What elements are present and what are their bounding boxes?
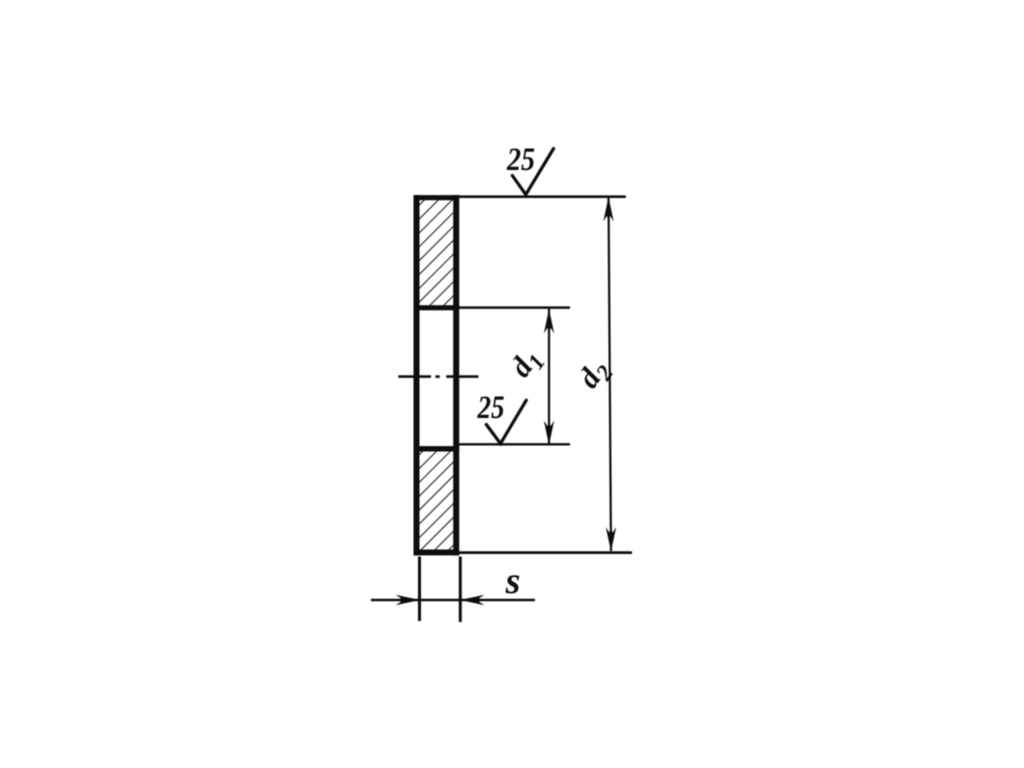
label s <box>505 560 521 602</box>
washer outline: bottom edge <box>414 550 460 556</box>
washer bore lower edge (thick) <box>414 446 460 451</box>
label d1 <box>504 342 550 386</box>
extension line below right <box>459 557 462 623</box>
bore lower extension line <box>455 443 570 445</box>
dimension d2 line <box>603 197 616 552</box>
roughness label 25 (top) <box>506 142 535 178</box>
top surface extension line <box>455 195 626 198</box>
washer outline: left edge <box>414 195 420 555</box>
roughness mark 25 (bore) <box>486 400 526 443</box>
dimension s line, left part with right-pointing arrow <box>371 595 420 605</box>
label d2 <box>572 353 618 397</box>
dimension s line, middle and right part with left-pointing arrow <box>420 595 536 605</box>
roughness label 25 (bore) <box>477 390 505 426</box>
washer section: bottom hatched area <box>419 451 454 550</box>
svg-text:d2: d2 <box>572 353 618 397</box>
washer bore upper edge (thick) <box>414 305 460 310</box>
extension line below left <box>418 557 421 622</box>
svg-text:25: 25 <box>477 390 505 426</box>
center line (dash-dot) <box>398 375 478 378</box>
svg-text:25: 25 <box>506 142 535 178</box>
svg-text:s: s <box>505 560 521 602</box>
dimension d1 line <box>544 309 554 445</box>
washer section: top hatched area <box>419 199 454 306</box>
roughness mark 25 (top) <box>512 149 553 195</box>
washer outline: right edge <box>453 195 459 555</box>
svg-text:d1: d1 <box>504 342 550 386</box>
bore upper extension line <box>455 306 570 309</box>
bottom surface extension line <box>455 551 632 554</box>
washer outline: top edge <box>414 195 460 200</box>
